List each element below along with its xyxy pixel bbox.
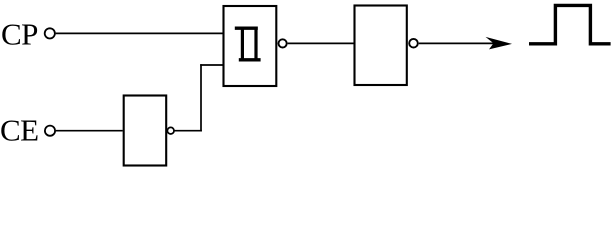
output bubble U1 — [279, 39, 287, 47]
output wire with arrow — [419, 42, 503, 44]
hysteresis symbol — [235, 27, 261, 61]
wire U3 output horizontal — [175, 130, 202, 132]
wire to U1 lower input — [200, 64, 223, 66]
wire vertical riser — [200, 64, 202, 131]
terminal CP — [45, 28, 55, 38]
svg-text:CP: CP — [1, 17, 38, 52]
gate U2 box — [355, 6, 407, 86]
wire U1 to U2 — [288, 42, 354, 44]
svg-text:CE: CE — [0, 113, 38, 148]
inverter gate U3 box — [124, 96, 167, 166]
wire CP to Schmitt input — [56, 32, 223, 34]
pulse waveform symbol — [529, 5, 611, 43]
output bubble U3 — [167, 127, 174, 134]
terminal CE — [45, 126, 55, 136]
output bubble U2 — [409, 39, 418, 48]
arrowhead — [486, 37, 513, 50]
wire CE to inverter input — [56, 130, 123, 132]
Schmitt trigger gate U1 — [224, 6, 277, 86]
